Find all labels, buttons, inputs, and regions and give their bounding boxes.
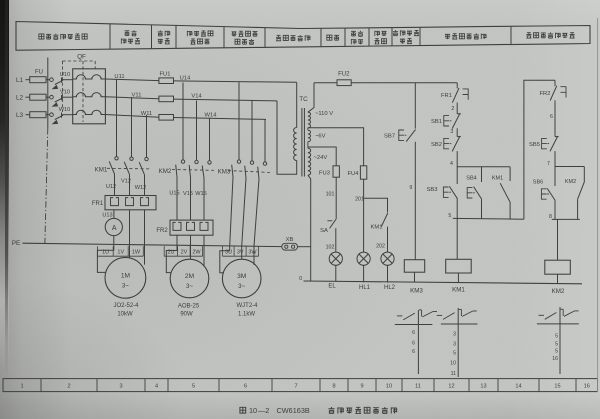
wire SB1 to stop button SB2 [456, 130, 458, 135]
bus wire U14 from FU1 to transformer primary corner [174, 81, 297, 82]
wire U12 from KM1 to thermal relay FR1 [114, 174, 116, 196]
contactor KM1 auxiliary contact for indicator HL2 [381, 213, 388, 252]
header column divider lines [110, 24, 511, 49]
contactor KM2 main contact 1 [176, 160, 185, 177]
fuse FU2 [337, 80, 351, 86]
motor 2 terminal strip 2U 2V 2W [164, 246, 202, 256]
wire from KM3 contact 2 to motor 3 terminal (slanted) [242, 178, 246, 246]
header label: coolant pump motor control (leng que beng dian ji kong zhi) [526, 32, 574, 38]
wire KM2 coil to 0V rail [557, 274, 559, 283]
wire node 5 down to KM1 coil [456, 218, 458, 259]
thermal relay FR1 heater element V phase [126, 198, 134, 206]
indicator lamp HL1 (power indicator) [357, 252, 370, 265]
contact usage table for KM2: spare contact symbols [539, 309, 579, 319]
circuit breaker QF enclosure box [73, 69, 106, 124]
wire to motor 2 terminal 2V [190, 235, 192, 259]
contactor KM3 main contact 1 [232, 160, 241, 177]
header label: power indicator (dian yuan zhi shi) [351, 31, 363, 37]
header label: spindle motor control (zhu zhou dian ji kong zhi) [445, 33, 486, 39]
contactor KM1 main contact 3 [139, 157, 148, 174]
bus wire W14 from FU1 to KM3 dropper [174, 118, 267, 120]
wire W12 from KM1 to thermal relay FR1 [144, 175, 146, 196]
stop push button SB1 (NC) [452, 112, 461, 130]
transformer TC primary winding [294, 128, 297, 161]
dropper wire from bus to contactor KM3 main contact 3 [264, 119, 266, 161]
wire KM1 coil to 0V rail [457, 273, 459, 283]
wire fuse FU to disconnect, phase L2 [46, 96, 50, 98]
header label: power switch and protection (dian yuan kai guan ji bao hu) [39, 34, 87, 40]
disconnect contact (plug) phase L1: terminal circle, blade and arrow [50, 78, 73, 90]
motor M2 (coolant pump motor) circle [170, 259, 209, 298]
bottom column-number strip frame [3, 379, 598, 392]
wire U13 from FR1 to ammeter [113, 210, 115, 219]
contactor KM2 main contact 3 [202, 161, 211, 178]
contactor KM1 linkage (dashed) [107, 167, 151, 170]
fuse FU3 [333, 166, 339, 177]
bus wire V11 from QF to fuse FU1 [105, 97, 159, 99]
header label: spindle motor (zhu zhou dian dong ji) [125, 30, 137, 36]
contact usage table for KM1: horizontal bar [441, 323, 478, 325]
wire lamp HL1 to 0V rail [363, 265, 365, 282]
thermal relay FR2 normally-closed contact (control) [550, 84, 566, 101]
start button SB6 (NO) on main chain [547, 167, 555, 220]
dropper wire from bus to contactor KM2 main contact 1 [182, 83, 184, 160]
header label: control transformer (kong zhi bian ya qi) [276, 35, 310, 41]
bottom strip column numbers 1-16 [20, 384, 589, 390]
function-zone header table frame [16, 22, 590, 51]
contact usage table for KM3: horizontal bar [395, 324, 433, 326]
wire V15 from KM2 to thermal relay FR2 [190, 177, 192, 220]
node 5 horizontal wire [453, 217, 524, 220]
bus wire W11 from QF to fuse FU1 [105, 115, 159, 118]
contactor KM1 main contact 1 [109, 157, 118, 174]
wire lamp HL2 to 0V rail [387, 265, 389, 282]
wire to motor 2 terminal 2W [203, 235, 205, 266]
motor M3 (rapid feed motor) circle [222, 259, 261, 298]
contactor KM2 main contact 2 [189, 160, 198, 177]
stop push button SB5 (NC) [550, 135, 559, 153]
contact usage table for KM3: vertical line [417, 310, 419, 374]
contact usage table KM3 row numbers 6 6 6 [412, 330, 415, 355]
control bus wire 1 from FU2 to branch KM1 [351, 82, 457, 84]
bottom strip divider lines [41, 379, 576, 392]
thermal overload relay FR2 box [170, 220, 213, 235]
fuse FU pole L3 [30, 112, 46, 118]
header label: lighting (zhao ming) [327, 35, 339, 40]
transformer TC secondary winding middle section [308, 130, 311, 141]
contact usage table for KM1: spare contact symbols [437, 309, 477, 319]
contactor KM2 linkage (dashed) [172, 169, 214, 172]
wire 201 branch to KM1 lamp contact [364, 198, 388, 212]
control circuit 0V rail [304, 281, 583, 284]
transformer TC secondary winding section 110V [308, 112, 311, 128]
contactor KM3 main contact 2 [245, 161, 254, 178]
contact usage table KM1 row numbers 3 3 5 10 11 [450, 331, 456, 377]
ammeter A in U phase of motor 1 [105, 218, 122, 235]
bus wire U11 from QF to fuse FU1 [105, 79, 159, 81]
contactor KM3 linkage (dashed) [228, 171, 270, 173]
connector XB (removable link with two terminals) [282, 243, 298, 250]
contact usage table for KM2: horizontal bar [537, 323, 579, 325]
wire from ammeter to motor 1 terminal 1U (with elbow) [97, 236, 113, 273]
wire node 8 down to KM2 coil [557, 219, 559, 260]
node 7 horizontal wire to KM2 seal-in contact [555, 166, 584, 168]
header label: rapid feed motor (kuai su jin gei dian dong ji) [232, 31, 258, 36]
contactor KM1 auxiliary seal-in contact [500, 167, 510, 219]
protective earth rail wire [23, 243, 282, 246]
wire from KM3 contact 3 to motor 3 terminal (slanted) [254, 179, 259, 246]
wire L3 lead into fuse FU [26, 114, 31, 116]
thermal relay FR1 normally-closed contact (control) [452, 87, 468, 104]
contact usage table for KM3: spare contact symbols [397, 310, 437, 320]
header label: working indicator (gong zuo zhi shi) [375, 31, 387, 36]
wire W15 from KM2 to thermal relay FR2 [203, 178, 205, 220]
contact usage table KM2 row numbers 5 5 5 16 [552, 334, 558, 363]
contactor KM2 auxiliary seal-in contact [578, 167, 585, 220]
circuit breaker QF pole L3 (double contact humps) [73, 110, 106, 114]
wire SB5 down to node 7 [554, 152, 556, 166]
dropper wire from bus to contactor KM1 main contact 1 [116, 79, 118, 157]
wire corner down to FR2 contact [554, 80, 556, 84]
motor M1 (spindle motor) circle [105, 257, 146, 298]
transformer secondary common lead down to 0V rail (through XB node) [308, 175, 311, 281]
wire 24V tap to fuse FU3 [308, 147, 336, 166]
wire U15 from KM2 to thermal relay FR2 [176, 177, 178, 220]
dropper wire from bus to contactor KM2 main contact 2 [196, 101, 198, 161]
wire to motor 3 terminal 3V [241, 246, 243, 259]
riser wire from node 5 to coolant control branch [524, 80, 555, 219]
rapid feed jog button SB7 [406, 83, 415, 260]
jog button SB3 (NO) in series on main chain [449, 167, 457, 218]
circuit breaker QF pole L2 (double contact humps) [73, 93, 106, 97]
stop push button SB2 (NC) [452, 135, 461, 153]
local lighting lamp EL [329, 252, 342, 265]
thermal relay FR2 heater element U phase [173, 222, 181, 230]
wire 101 from FU3 to switch SA [335, 177, 337, 218]
header label: short-circuit protection (duan lu bao hu) [158, 30, 170, 36]
contactor KM1 main contact 2 [124, 157, 133, 174]
vertical chassis / PE conductor on the left [45, 58, 48, 244]
wire XB to transformer secondary common [298, 246, 311, 248]
figure caption: Fig 10-2 CW6163B lathe electrical schematic [240, 406, 397, 415]
wire FR2 to stop button SB5 [554, 102, 556, 135]
contactor coil KM2 [545, 260, 571, 274]
wire from KM3 contact 1 to motor 3 terminal (slanted) [230, 177, 233, 246]
wire L2 lead into fuse FU [26, 96, 31, 98]
dropper wire from bus to contactor KM1 main contact 3 [146, 115, 148, 157]
transformer TC primary lead from U14 bus [296, 82, 298, 127]
wire lamp EL to 0V rail [335, 265, 337, 281]
wire 201 from FU4 down to lamp HL1 [363, 179, 365, 252]
thermal relay FR2 heater element W phase [200, 222, 208, 230]
motor 3 terminal strip 3U 3V 3W [223, 246, 259, 256]
transformer TC core (double bar) [302, 108, 305, 177]
contact usage table for KM2: vertical line [559, 307, 561, 374]
contactor coil KM1 [446, 259, 472, 273]
disconnect contact (plug) phase L3: terminal circle, blade and arrow [50, 113, 73, 125]
contactor coil KM3 [404, 260, 424, 273]
transformer TC secondary winding 24V section [308, 148, 311, 175]
wire KM3 coil to 0V rail [414, 272, 416, 282]
thermal overload relay FR1 box [105, 196, 156, 210]
wire fuse FU to disconnect, phase L1 [46, 79, 50, 81]
dropper wire from bus to contactor KM1 main contact 2 [131, 97, 133, 157]
wire V12 from KM1 to thermal relay FR1 [129, 174, 131, 195]
thermal relay FR1 heater element U phase [111, 198, 119, 206]
transformer TC primary bottom lead [277, 101, 297, 174]
node 4 horizontal wire to seal-in branch [457, 166, 510, 168]
indicator lamp HL2 (working indicator) [381, 252, 394, 265]
fuse FU1 pole U [159, 78, 174, 84]
start button SB4 (NO) seal-in branch [474, 167, 482, 219]
fuse FU pole L2 [30, 94, 46, 100]
wire L1 lead into fuse FU [26, 79, 31, 81]
wire V phase to motor 1 terminal 1V [129, 210, 131, 258]
node 8 horizontal wire [552, 218, 580, 220]
dropper wire from bus to contactor KM2 main contact 3 [209, 118, 211, 161]
fuse FU1 pole V [159, 96, 174, 102]
dropper wire from bus to contactor KM3 main contact 1 [238, 82, 240, 160]
fuse FU4 [360, 166, 366, 179]
wire FR1 to stop button SB1 [456, 104, 458, 112]
wire to motor 2 terminal 2U (with elbow) [166, 235, 177, 272]
circuit breaker QF pole L1 (double contact humps) [73, 75, 106, 79]
page right edge (scan artifact) [597, 18, 599, 392]
secondary inter-section stubs [307, 128, 309, 148]
header label: coolant pump motor (leng que ye beng dian dong ji) [187, 31, 213, 36]
wire SB2 down to node 4 [456, 152, 458, 166]
wire to motor 3 terminal 3U (with elbow) [220, 246, 230, 273]
wire 6V tap to fuse FU4 [308, 128, 364, 166]
lighting switch SA [327, 219, 336, 253]
thermal relay FR2 heater element V phase [187, 222, 195, 230]
dropper wire from bus to contactor KM3 main contact 2 [251, 100, 253, 161]
header label: rapid feed control (kuai su jin gei kong zhi) [393, 30, 419, 36]
contactor KM3 main contact 3 [258, 162, 267, 179]
fuse FU1 pole W [159, 115, 174, 121]
wire W phase to motor 1 terminal 1W [144, 210, 146, 265]
disconnect contact (plug) phase L2: terminal circle, blade and arrow [50, 95, 73, 107]
button SB7 actuator bracket [399, 130, 408, 140]
contact usage table for KM1: vertical line [457, 308, 459, 377]
wire fuse FU to disconnect, phase L3 [46, 114, 50, 116]
wire to motor 3 terminal 3W [253, 246, 255, 265]
thermal relay FR1 heater element W phase [141, 198, 149, 206]
wire 110V tap up to control fuse FU2 [308, 83, 314, 112]
circuit breaker QF mechanism linkage (dashed) [63, 61, 96, 122]
fuse FU pole L1 [30, 77, 46, 83]
motor 1 terminal strip 1U 1V 1W [98, 246, 144, 256]
wire control bus corner down to FR1 contact [456, 83, 458, 87]
wire 110V tap to fuse FU2 [314, 82, 337, 84]
bus wire V14 from FU1 to transformer feed corner [174, 99, 278, 101]
